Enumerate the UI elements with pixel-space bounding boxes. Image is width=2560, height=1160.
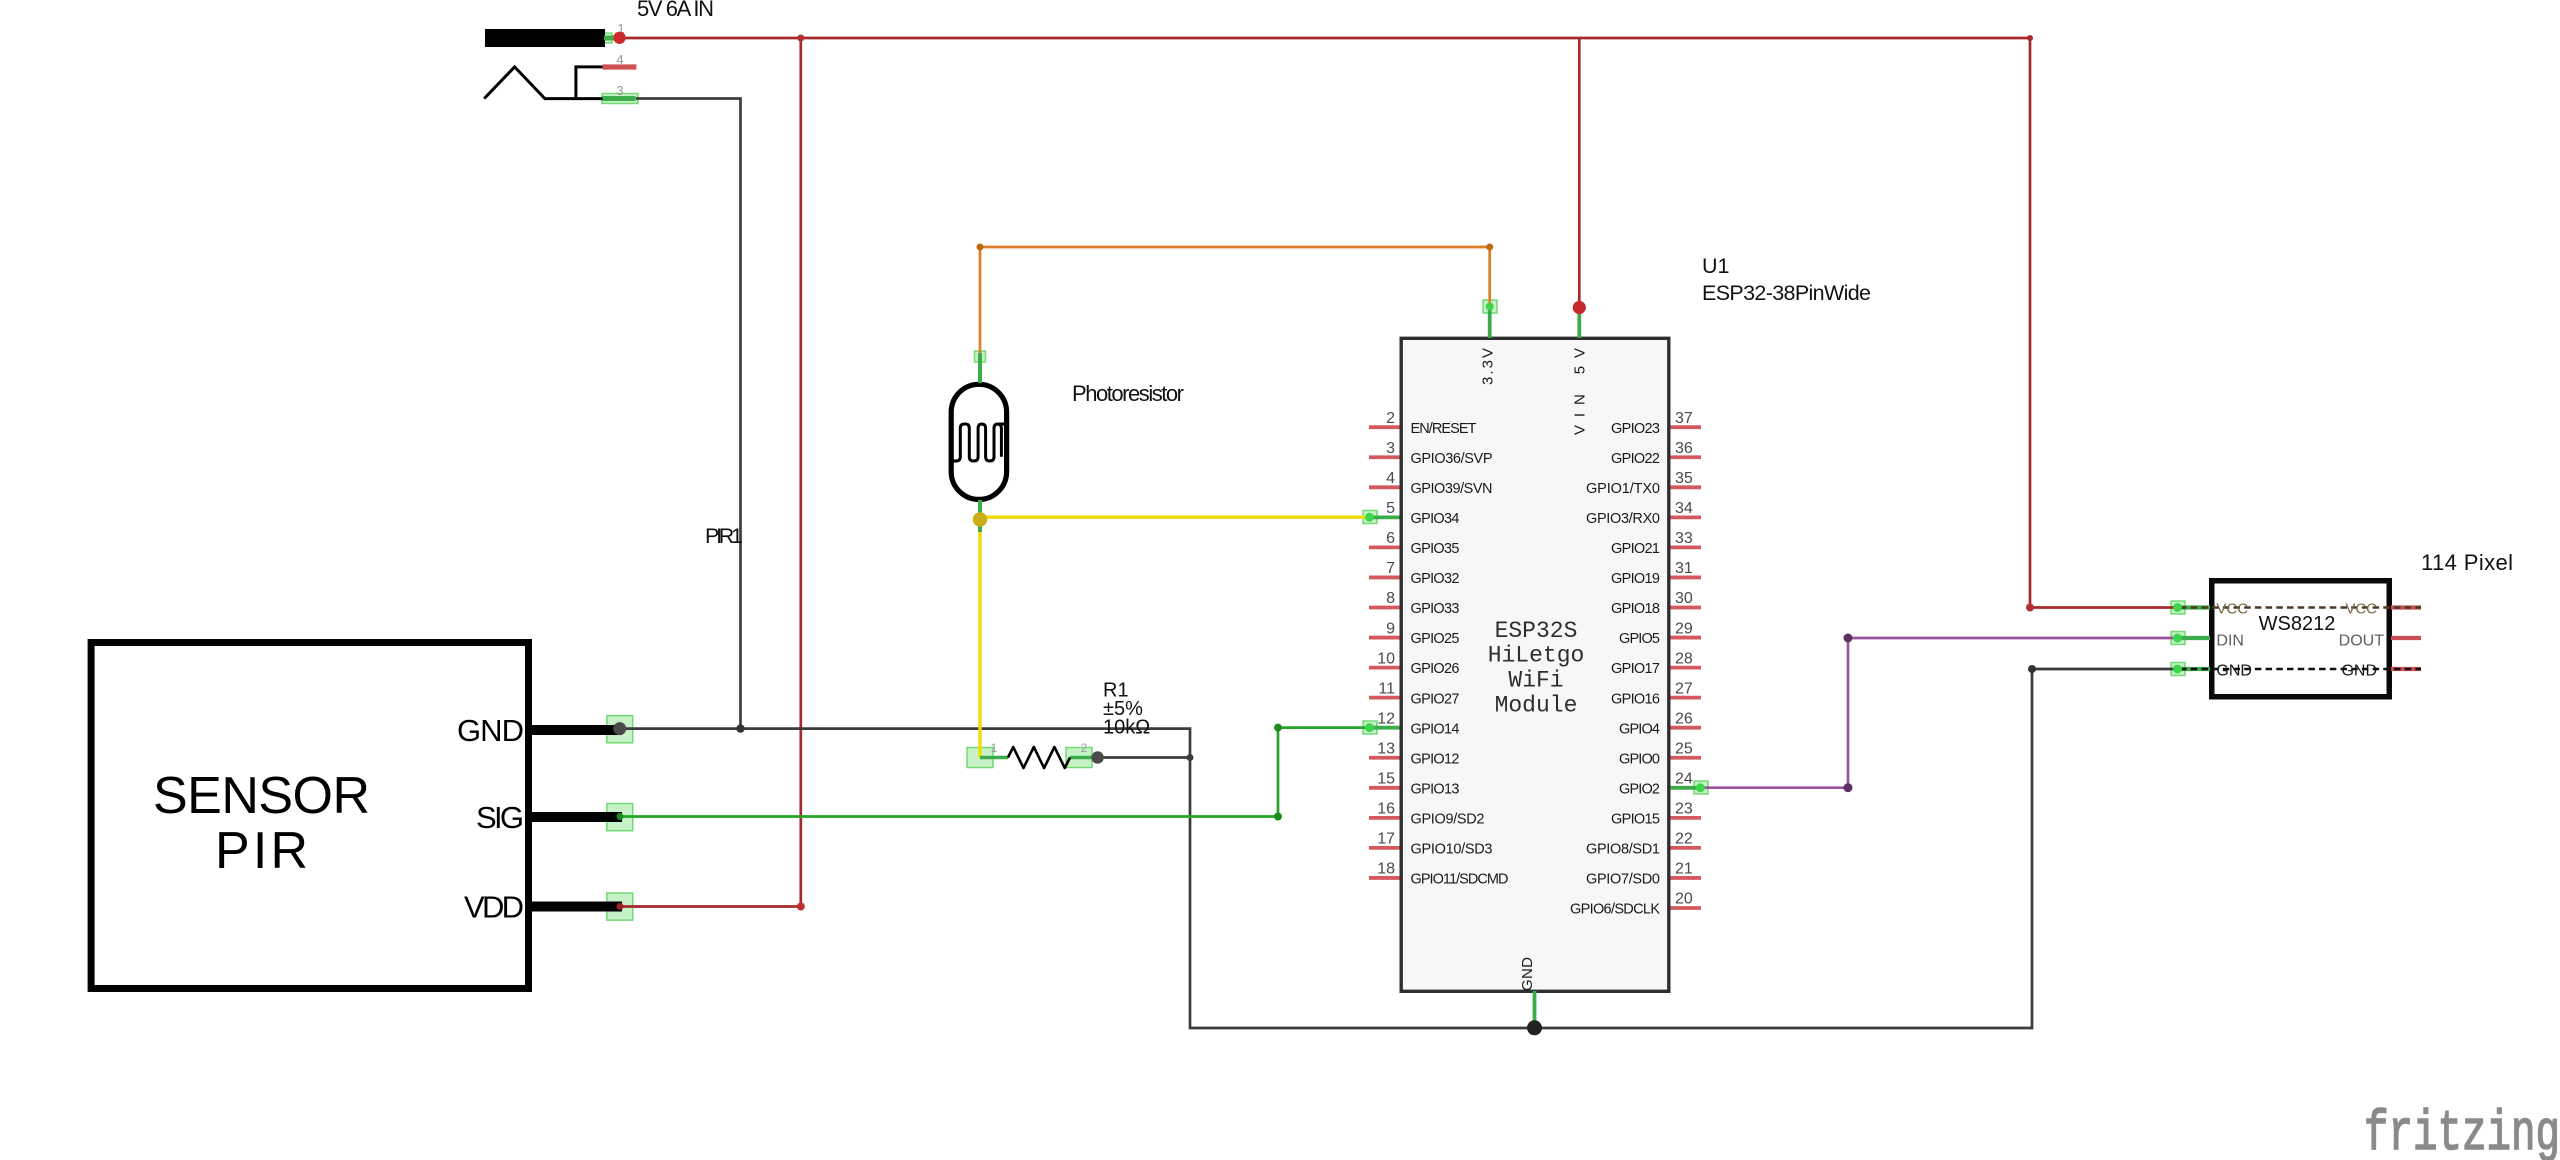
svg-text:22: 22	[1675, 831, 1693, 848]
pad GPIO34	[1363, 511, 1377, 524]
node PIR GND wire end	[613, 722, 626, 735]
WS8212 GND dashed net	[2180, 668, 2421, 671]
svg-text:fritzing: fritzing	[2364, 1103, 2560, 1160]
pad jack pin 3	[602, 94, 638, 104]
svg-text:WS8212: WS8212	[2259, 613, 2336, 635]
PIR pin GND leg	[528, 725, 622, 735]
svg-text:11: 11	[1378, 680, 1395, 697]
jack pin 1 wire end	[613, 32, 625, 44]
power jack J1 plug symbol	[484, 67, 603, 99]
sensor PIR1 body	[91, 643, 528, 989]
svg-text:DOUT: DOUT	[2339, 633, 2385, 650]
WS8212 DIN left leg	[2178, 636, 2211, 640]
WS8212 DOUT right leg	[2391, 636, 2421, 640]
svg-text:34: 34	[1675, 500, 1693, 517]
svg-text:GPIO12: GPIO12	[1411, 751, 1460, 767]
svg-text:WiFi: WiFi	[1508, 668, 1563, 694]
junction ESP32 GND / GND bus	[1527, 1020, 1542, 1035]
node GPIO14 wire end	[1365, 723, 1374, 732]
U1 pin 36 leg	[1671, 455, 1702, 459]
svg-text:10: 10	[1377, 650, 1395, 667]
svg-text:PIR1: PIR1	[705, 524, 743, 548]
wire jack GND	[636, 99, 741, 729]
U1 pin 13 leg	[1369, 756, 1400, 760]
svg-text:GPIO36/SVP: GPIO36/SVP	[1411, 451, 1493, 467]
U1 pin VIN 5V leg	[1577, 308, 1581, 338]
pad WS8212 DIN	[2171, 632, 2185, 645]
wire photoresistor to GPIO34	[980, 516, 1369, 519]
svg-text:37: 37	[1675, 410, 1693, 427]
corner VDD wire	[797, 903, 805, 911]
wire PIR VDD to 5V rail	[620, 38, 801, 907]
U1 pin 26 leg	[1671, 726, 1702, 730]
svg-text:GPIO33: GPIO33	[1411, 601, 1460, 617]
pad PIR VDD	[607, 893, 633, 920]
svg-text:GPIO7/SD0: GPIO7/SD0	[1586, 872, 1660, 888]
svg-text:VDD: VDD	[464, 890, 524, 925]
svg-text:24: 24	[1675, 771, 1693, 788]
jack pin 4 leg	[603, 64, 637, 69]
wire PIR SIG to GPIO14	[620, 728, 1369, 817]
wire photoresistor to 3.3V	[980, 247, 1490, 353]
svg-text:8: 8	[1386, 590, 1395, 607]
pad WS8212 VCC	[2171, 601, 2185, 614]
pad WS8212 GND	[2171, 663, 2185, 676]
pad photoresistor pin 1	[975, 351, 986, 362]
svg-text:Module: Module	[1495, 693, 1578, 719]
corner purple wire upper	[1844, 634, 1853, 643]
svg-text:20: 20	[1675, 891, 1693, 908]
svg-text:VCC: VCC	[2216, 601, 2248, 618]
svg-text:ESP32S: ESP32S	[1495, 618, 1578, 644]
pad R1 pin 1	[967, 748, 993, 768]
U1 pin 18 leg	[1369, 876, 1400, 880]
U1 pin 3.3V leg	[1488, 306, 1492, 338]
WS8212 GND left leg	[2178, 667, 2211, 671]
svg-text:18: 18	[1377, 861, 1395, 878]
svg-text:GPIO10/SD3: GPIO10/SD3	[1411, 842, 1493, 858]
svg-text:GPIO26: GPIO26	[1411, 661, 1460, 677]
photoresistor pin 2 leg	[978, 500, 982, 532]
svg-text:2: 2	[1386, 410, 1395, 427]
svg-text:Photoresistor: Photoresistor	[1072, 381, 1184, 406]
U1 pin 5 leg	[1369, 515, 1400, 519]
junction VIN 5V pin	[1573, 301, 1586, 314]
svg-text:6: 6	[1386, 530, 1395, 547]
svg-text:3: 3	[616, 83, 623, 98]
junction jack GND / PIR GND	[736, 724, 744, 732]
U1 pin GND leg	[1533, 991, 1537, 1026]
svg-text:36: 36	[1675, 440, 1693, 457]
svg-text:25: 25	[1675, 740, 1693, 757]
R1 pin 1 leg	[980, 756, 1008, 760]
svg-text:GPIO4: GPIO4	[1619, 721, 1660, 737]
svg-text:GPIO18: GPIO18	[1611, 601, 1660, 617]
svg-text:35: 35	[1675, 470, 1693, 487]
wire GPIO2 to WS8212 DIN	[1701, 638, 2178, 788]
svg-text:GND: GND	[2216, 663, 2252, 680]
svg-text:3: 3	[1386, 440, 1395, 457]
U1 pin 29 leg	[1671, 636, 1702, 640]
node WS8212 DIN wire end	[2173, 634, 2182, 643]
svg-text:10kΩ: 10kΩ	[1103, 717, 1150, 739]
WS8212 VCC right leg	[2391, 605, 2421, 609]
U1 pin 23 leg	[1671, 816, 1702, 820]
corner 5V rail	[2027, 35, 2033, 41]
svg-text:GPIO23: GPIO23	[1611, 421, 1660, 437]
svg-text:31: 31	[1675, 560, 1693, 577]
svg-text:DIN: DIN	[2216, 633, 2244, 650]
node WS8212 VCC wire end	[2173, 603, 2182, 612]
svg-text:GPIO13: GPIO13	[1411, 781, 1460, 797]
svg-text:26: 26	[1675, 710, 1693, 727]
node PIR VDD wire end	[617, 903, 624, 910]
U1 pin 6 leg	[1369, 546, 1400, 550]
svg-text:GPIO27: GPIO27	[1411, 691, 1460, 707]
U1 pin 9 leg	[1369, 636, 1400, 640]
svg-text:GPIO14: GPIO14	[1411, 721, 1460, 737]
svg-text:GPIO19: GPIO19	[1611, 571, 1660, 587]
jack pin 1 leg	[604, 36, 614, 41]
svg-text:5V 6A IN: 5V 6A IN	[637, 0, 714, 21]
corner WS8212 VCC wire	[2026, 604, 2034, 612]
node GPIO34 wire end	[1365, 513, 1374, 522]
svg-text:7: 7	[1386, 560, 1395, 577]
svg-text:GPIO16: GPIO16	[1611, 691, 1660, 707]
svg-text:114 Pixel: 114 Pixel	[2421, 550, 2513, 575]
wire 5V rail to WS8212 VCC	[2030, 38, 2178, 608]
U1 pin 3 leg	[1369, 455, 1400, 459]
corner green GPIO14 wire	[1274, 724, 1282, 732]
resistor R1 zigzag	[1008, 747, 1070, 768]
jack pin 3 leg	[603, 96, 636, 101]
corner purple wire lower	[1844, 783, 1853, 792]
photoresistor meander	[952, 424, 1007, 461]
pad PIR GND	[607, 716, 633, 743]
pad 3.3V	[1483, 300, 1497, 313]
svg-text:4: 4	[1386, 470, 1395, 487]
wire photoresistor to R1	[978, 520, 981, 758]
U1 pin 24 leg	[1671, 786, 1702, 790]
svg-text:GPIO11/SDCMD: GPIO11/SDCMD	[1411, 872, 1509, 888]
svg-text:GPIO8/SD1: GPIO8/SD1	[1586, 842, 1660, 858]
node GPIO2 wire end	[1696, 783, 1705, 792]
U1 pin 31 leg	[1671, 576, 1702, 580]
U1 pin 28 leg	[1671, 666, 1702, 670]
pad jack pin 1	[603, 33, 612, 43]
node PIR SIG wire end	[617, 813, 624, 820]
svg-text:VCC: VCC	[2345, 601, 2377, 618]
svg-text:GPIO9/SD2: GPIO9/SD2	[1411, 811, 1485, 827]
power jack J1 body	[485, 29, 605, 47]
svg-text:28: 28	[1675, 650, 1693, 667]
svg-text:GPIO34: GPIO34	[1411, 511, 1460, 527]
svg-text:GND: GND	[2341, 663, 2377, 680]
svg-text:29: 29	[1675, 620, 1693, 637]
U1 pin 7 leg	[1369, 576, 1400, 580]
svg-text:21: 21	[1675, 861, 1693, 878]
U1 pin 25 leg	[1671, 756, 1702, 760]
junction 5V rail / VDD branch	[797, 35, 804, 42]
U1 pin 16 leg	[1369, 816, 1400, 820]
svg-text:EN/RESET: EN/RESET	[1411, 421, 1477, 437]
svg-text:9: 9	[1386, 620, 1395, 637]
pad PIR SIG	[607, 804, 633, 831]
U1 pin 34 leg	[1671, 515, 1702, 519]
node 3.3V wire end	[1486, 303, 1494, 311]
svg-text:1: 1	[991, 741, 998, 755]
junction R1 branch / GND bus	[1187, 754, 1194, 761]
svg-text:GPIO22: GPIO22	[1611, 451, 1660, 467]
junction photoresistor / GPIO34 / R1	[973, 512, 987, 526]
svg-text:27: 27	[1675, 680, 1693, 697]
svg-text:33: 33	[1675, 530, 1693, 547]
wire 5V rail	[625, 37, 2030, 40]
svg-text:30: 30	[1675, 590, 1693, 607]
svg-text:GPIO17: GPIO17	[1611, 661, 1660, 677]
PIR pin SIG leg	[528, 812, 622, 822]
photoresistor pin 1 leg	[978, 353, 982, 383]
svg-text:3.3V: 3.3V	[1480, 348, 1497, 385]
U1 pin 30 leg	[1671, 606, 1702, 610]
PIR pin VDD leg	[528, 902, 622, 912]
U1 pin 21 leg	[1671, 876, 1702, 880]
U1 pin 37 leg	[1671, 425, 1702, 429]
WS8212 body	[2212, 581, 2390, 697]
svg-text:4: 4	[616, 52, 623, 67]
svg-text:GPIO39/SVN: GPIO39/SVN	[1411, 481, 1493, 497]
U1 pin 33 leg	[1671, 546, 1702, 550]
svg-text:SENSOR: SENSOR	[153, 767, 370, 825]
corner green SIG wire	[1274, 813, 1282, 821]
pad GPIO14	[1363, 721, 1377, 734]
pad GPIO2	[1694, 781, 1708, 794]
svg-text:GPIO35: GPIO35	[1411, 541, 1460, 557]
U1 pin 4 leg	[1369, 485, 1400, 489]
svg-text:GPIO0: GPIO0	[1619, 751, 1660, 767]
svg-text:GPIO5: GPIO5	[1619, 631, 1660, 647]
svg-text:GND: GND	[1519, 957, 1536, 991]
svg-text:23: 23	[1675, 801, 1693, 818]
svg-text:SIG: SIG	[476, 800, 524, 835]
U1 pin 35 leg	[1671, 485, 1702, 489]
wire 5V rail to VIN 5V	[1578, 38, 1581, 308]
U1 pin 10 leg	[1369, 666, 1400, 670]
wire R1 to GND bus	[1098, 756, 1190, 759]
corner orange wire left	[977, 244, 984, 251]
U1 pin 17 leg	[1369, 846, 1400, 850]
svg-text:15: 15	[1377, 771, 1395, 788]
svg-text:U1: U1	[1702, 254, 1729, 278]
svg-text:GPIO1/TX0: GPIO1/TX0	[1586, 481, 1660, 497]
svg-text:5: 5	[1386, 500, 1395, 517]
U1 pin 20 leg	[1671, 906, 1702, 910]
U1 pin 2 leg	[1369, 425, 1400, 429]
WS8212 VCC left leg	[2178, 605, 2211, 609]
WS8212 VCC dashed net	[2180, 606, 2421, 608]
svg-text:ESP32-38PinWide: ESP32-38PinWide	[1702, 281, 1871, 305]
svg-text:12: 12	[1377, 710, 1395, 727]
node WS8212 GND wire end	[2173, 665, 2182, 674]
svg-text:GPIO2: GPIO2	[1619, 781, 1660, 797]
svg-text:GPIO6/SDCLK: GPIO6/SDCLK	[1570, 902, 1660, 918]
node R1 pin 2 wire end	[1091, 751, 1103, 763]
R1 pin 2 leg	[1070, 756, 1096, 760]
svg-text:13: 13	[1377, 740, 1395, 757]
svg-text:GND: GND	[457, 713, 524, 748]
U1 pin 15 leg	[1369, 786, 1400, 790]
svg-text:GPIO21: GPIO21	[1611, 541, 1660, 557]
U1 pin 22 leg	[1671, 846, 1702, 850]
svg-text:GPIO15: GPIO15	[1611, 811, 1660, 827]
pad R1 pin 2	[1066, 748, 1092, 768]
U1 pin 8 leg	[1369, 606, 1400, 610]
photoresistor body	[951, 384, 1006, 499]
svg-text:17: 17	[1377, 831, 1395, 848]
svg-text:GPIO32: GPIO32	[1411, 571, 1460, 587]
wire GND bus PIR to WS8212	[620, 669, 2178, 1028]
svg-text:HiLetgo: HiLetgo	[1488, 643, 1585, 669]
svg-text:GPIO25: GPIO25	[1411, 631, 1460, 647]
svg-text:16: 16	[1377, 801, 1395, 818]
op-amp U1 ESP32 body	[1401, 338, 1669, 991]
U1 pin 11 leg	[1369, 696, 1400, 700]
U1 pin 12 leg	[1369, 726, 1400, 730]
svg-text:PIR: PIR	[215, 822, 308, 880]
corner WS8212 GND wire	[2028, 665, 2036, 673]
WS8212 GND right leg	[2391, 667, 2421, 671]
corner orange wire right	[1486, 244, 1493, 251]
U1 pin 27 leg	[1671, 696, 1702, 700]
svg-text:GPIO3/RX0: GPIO3/RX0	[1586, 511, 1660, 527]
svg-text:2: 2	[1081, 741, 1088, 755]
